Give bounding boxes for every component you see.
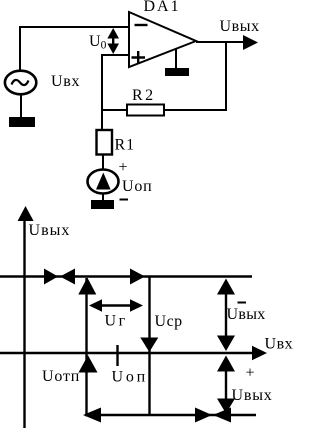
- minus sign (inverting input): [135, 24, 148, 26]
- op-amp DA1: [129, 12, 196, 67]
- ground (Uоп source): [91, 200, 114, 209]
- arrow up on Uотп line at top: [78, 278, 96, 295]
- arrow up on Uотп line below axis: [79, 355, 98, 372]
- label minus (Uоп): [120, 199, 129, 201]
- bottom level line (low output): [85, 414, 256, 416]
- svg-text:+: +: [246, 365, 255, 382]
- svg-text:Uвых: Uвых: [220, 18, 260, 35]
- plus sign (noninverting input): [132, 51, 146, 64]
- resistor R1: [97, 130, 113, 155]
- dimension arrow U+вых (axis to bottom line): [217, 356, 235, 414]
- svg-text:Uоп: Uоп: [122, 178, 153, 195]
- svg-text:Uотп: Uотп: [42, 368, 80, 385]
- arrow left at bottom line end: [83, 408, 101, 423]
- resistor R2: [127, 105, 164, 116]
- svg-text:Uвх: Uвх: [51, 73, 80, 90]
- wire R1 to Uоп source: [102, 155, 104, 171]
- y-axis Uвых: [18, 206, 34, 428]
- wire node to R1: [101, 110, 103, 130]
- vertical line at Uср: [148, 277, 150, 416]
- ground (input source): [9, 117, 35, 127]
- wire R2 left to node: [102, 109, 127, 111]
- arrow output Uвых: [243, 35, 258, 50]
- generator G1 Uвх (sine source): [5, 71, 36, 95]
- ground (op-amp): [165, 68, 189, 76]
- arrow right on bottom line: [195, 408, 212, 423]
- arrow right on top line: [44, 269, 58, 285]
- arrow down on Uср line at axis: [140, 338, 158, 353]
- dimension arrow U-вых (top line to axis): [217, 279, 235, 352]
- vertical line at Uотп: [85, 278, 87, 415]
- arrow left on top line: [60, 269, 75, 285]
- wire op-amp to ground: [175, 50, 177, 69]
- voltage source Uоп: [88, 170, 119, 194]
- wire feedback (output node down to R2): [164, 42, 226, 110]
- svg-text:R2: R2: [132, 87, 156, 104]
- arrow right toward Uср corner: [130, 269, 145, 285]
- svg-text:Uвых: Uвых: [227, 306, 266, 323]
- svg-text:+: +: [119, 159, 128, 176]
- svg-text:Uср: Uср: [155, 313, 183, 330]
- arrow left facing on bottom line: [213, 408, 231, 423]
- svg-text:Uвх: Uвх: [265, 336, 294, 353]
- svg-text:Uг: Uг: [105, 313, 128, 330]
- x-axis Uвх: [0, 346, 267, 360]
- wire Uоп to ground: [102, 194, 104, 202]
- svg-text:DA1: DA1: [144, 0, 181, 15]
- label minus (U-вых): [238, 302, 247, 304]
- wire output: [196, 41, 245, 43]
- svg-text:Uвых: Uвых: [29, 222, 71, 239]
- wire source to ground: [20, 95, 22, 119]
- tick Uоп on x-axis: [116, 345, 118, 366]
- svg-text:R1: R1: [115, 137, 136, 154]
- dimension arrow U0 (double-headed): [107, 28, 119, 54]
- svg-text:Uвых: Uвых: [232, 387, 273, 404]
- dimension arrow Uг: [89, 299, 143, 311]
- svg-text:Uоп: Uоп: [112, 369, 149, 386]
- wire noninverting input: [102, 55, 129, 111]
- top level line (high output): [0, 275, 252, 277]
- wire top (source to inverting input): [20, 27, 129, 70]
